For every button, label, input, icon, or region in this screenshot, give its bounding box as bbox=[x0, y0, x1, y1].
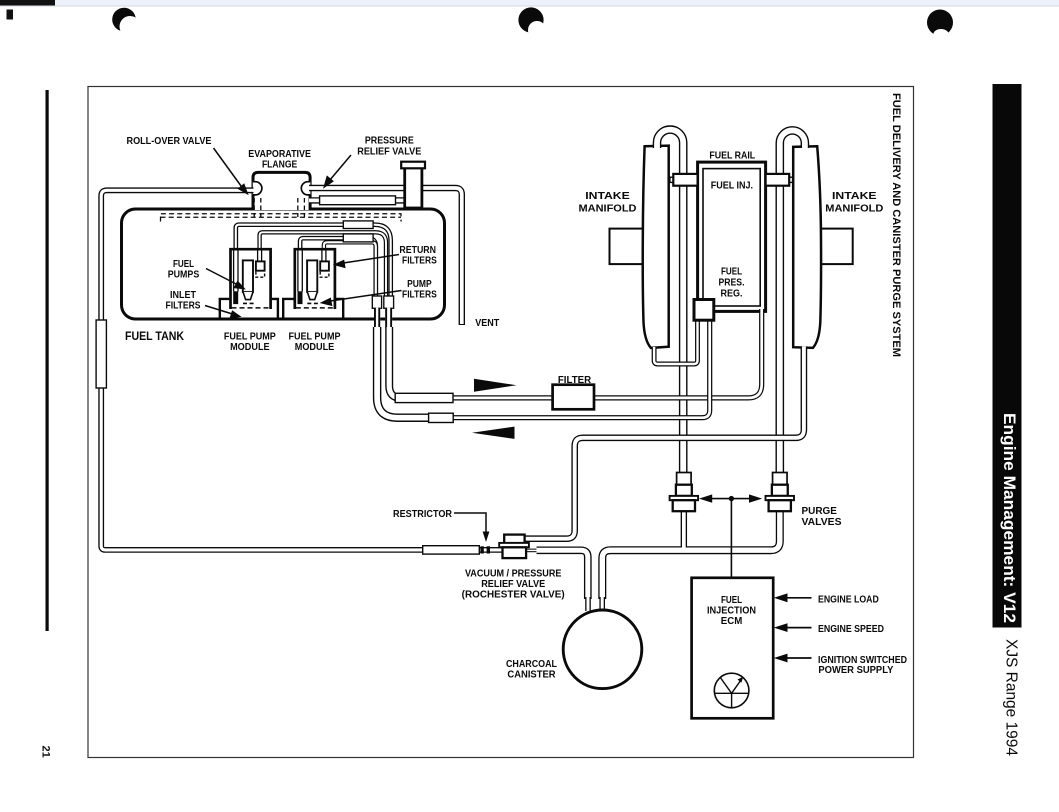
svg-text:Engine Management: V12: Engine Management: V12 bbox=[1000, 413, 1018, 623]
svg-text:RESTRICTOR: RESTRICTOR bbox=[393, 509, 452, 520]
svg-text:INTAKE: INTAKE bbox=[832, 191, 877, 202]
svg-text:INLET: INLET bbox=[170, 290, 196, 301]
tank wall fitting right bbox=[385, 308, 392, 329]
purge valve double arrow bbox=[699, 494, 762, 502]
ECM input arrow: engine speed bbox=[774, 623, 812, 632]
svg-text:REG.: REG. bbox=[721, 289, 743, 300]
sleeve on run A bbox=[343, 221, 373, 229]
fuel pressure regulator bbox=[694, 300, 714, 321]
run C (pump2 line) bbox=[300, 238, 376, 308]
vent line (tank top right, to VENT) bbox=[309, 188, 462, 325]
roll-over vent line (left, long run to restrictor) bbox=[101, 190, 505, 550]
leader arrow roll-over valve bbox=[214, 148, 243, 188]
svg-text:FILTERS: FILTERS bbox=[402, 289, 437, 300]
inlet strainer 2 (black) bbox=[298, 291, 303, 304]
punch hole crescent 1 bbox=[112, 8, 140, 37]
supply coupling sleeve bbox=[395, 393, 453, 402]
supply hose elbow (right fitting down) bbox=[389, 327, 432, 398]
svg-text:INJECTION: INJECTION bbox=[707, 606, 756, 617]
left purge valve lower stem (T into purge feed) bbox=[681, 510, 687, 553]
svg-text:FUEL RAIL: FUEL RAIL bbox=[709, 151, 755, 162]
svg-text:MODULE: MODULE bbox=[230, 342, 270, 353]
svg-text:RELIEF VALVE: RELIEF VALVE bbox=[357, 146, 422, 157]
fuel rail inner bbox=[703, 169, 760, 306]
svg-text:CANISTER: CANISTER bbox=[507, 670, 555, 681]
run B (return1 line) bbox=[260, 232, 386, 308]
fuel supply line (filter run + riser to rail) bbox=[430, 309, 762, 398]
right sidebar black tab bbox=[993, 84, 1022, 628]
svg-text:MANIFOLD: MANIFOLD bbox=[825, 203, 883, 214]
flow arrow right bbox=[474, 379, 517, 392]
svg-text:VACUUM / PRESSURE: VACUUM / PRESSURE bbox=[465, 569, 562, 580]
module 2 box bbox=[295, 249, 335, 309]
svg-text:FUEL INJ.: FUEL INJ. bbox=[711, 181, 754, 192]
return filter 1 bbox=[256, 261, 265, 270]
left injector connector bbox=[670, 177, 673, 182]
fuel return line (run + riser to regulator) bbox=[432, 318, 710, 418]
canister neck stems bbox=[588, 596, 602, 611]
flange right port bbox=[301, 182, 310, 195]
tank wall fitting left bbox=[374, 308, 380, 329]
dashed drop tubes under right port bbox=[298, 198, 305, 217]
leader arrow inlet filters bbox=[205, 306, 234, 315]
left manifold port box bbox=[610, 229, 646, 265]
svg-text:FUEL TANK: FUEL TANK bbox=[125, 329, 184, 343]
fuel tank bbox=[122, 209, 445, 319]
left purge U-bend down to purge valve bbox=[657, 130, 683, 486]
flow arrow left bbox=[472, 427, 515, 439]
leader arrow fuel pumps bbox=[206, 269, 239, 286]
evaporative flange bbox=[253, 172, 310, 210]
module 1 box bbox=[231, 249, 271, 309]
flange left port bbox=[253, 182, 262, 195]
return hose elbow (left fitting down) bbox=[377, 327, 432, 418]
rochester valve bbox=[499, 535, 529, 559]
fuel pump 2 bbox=[307, 260, 317, 292]
svg-text:VALVES: VALVES bbox=[802, 517, 843, 528]
svg-text:VENT: VENT bbox=[475, 318, 499, 329]
inlet strainer 1 (black) bbox=[233, 291, 238, 304]
right purge valve bbox=[766, 473, 795, 512]
svg-text:RELIEF VALVE: RELIEF VALVE bbox=[481, 579, 546, 590]
ECM box bbox=[692, 578, 774, 719]
svg-text:MODULE: MODULE bbox=[295, 342, 335, 353]
fuel pump 1 bbox=[243, 260, 253, 292]
svg-text:INTAKE: INTAKE bbox=[585, 191, 630, 202]
tank wall fitting right (upper sleeve) bbox=[384, 296, 394, 308]
scanner top band bbox=[0, 0, 1059, 6]
leader restrictor bbox=[454, 513, 486, 534]
module 2 riser lines redrawn inside box bbox=[300, 251, 324, 293]
link: rochester to canister left port bbox=[537, 550, 588, 599]
rochester right port stub bbox=[526, 549, 538, 553]
svg-text:FLANGE: FLANGE bbox=[262, 160, 298, 171]
module 1 bottom screen (dashed) bbox=[232, 307, 270, 309]
svg-text:FILTERS: FILTERS bbox=[402, 255, 437, 266]
return filter 2 bbox=[320, 261, 329, 270]
fuel rail outer bbox=[698, 162, 766, 311]
leader arrow return filters bbox=[340, 255, 399, 264]
ECM symbol circle bbox=[714, 673, 749, 708]
module 2 base bbox=[283, 299, 343, 318]
svg-text:CHARCOAL: CHARCOAL bbox=[506, 659, 557, 670]
svg-text:EVAPORATIVE: EVAPORATIVE bbox=[248, 149, 311, 160]
svg-text:XJS Range 1994: XJS Range 1994 bbox=[1003, 639, 1020, 756]
svg-text:PUMPS: PUMPS bbox=[168, 270, 200, 281]
left intake manifold bbox=[643, 146, 669, 348]
return coupling sleeve bbox=[429, 413, 454, 422]
svg-text:FILTER: FILTER bbox=[558, 375, 591, 386]
restrictor sleeve bbox=[423, 546, 480, 554]
corner black mark top-left bbox=[0, 0, 55, 6]
left purge valve bbox=[670, 473, 699, 512]
svg-text:FUEL: FUEL bbox=[721, 267, 742, 278]
vacuum line: left manifold bottom to regulator bbox=[654, 320, 697, 364]
run A (pump1 line) bbox=[236, 225, 391, 308]
svg-text:ROLL-OVER VALVE: ROLL-OVER VALVE bbox=[127, 136, 212, 147]
module 1 base bbox=[220, 299, 278, 318]
svg-text:FILTERS: FILTERS bbox=[166, 300, 201, 311]
dashed drop tubes under left port bbox=[254, 198, 261, 217]
vacuum signal line: rochester top to right manifold bottom bbox=[522, 347, 804, 539]
svg-text:ENGINE SPEED: ENGINE SPEED bbox=[818, 624, 884, 635]
svg-text:FUEL: FUEL bbox=[173, 259, 194, 270]
tank wall fitting left (upper sleeve) bbox=[372, 296, 381, 308]
svg-text:MANIFOLD: MANIFOLD bbox=[579, 203, 637, 214]
svg-text:PRESSURE: PRESSURE bbox=[365, 136, 414, 147]
svg-text:ENGINE LOAD: ENGINE LOAD bbox=[818, 594, 879, 605]
svg-text:POWER SUPPLY: POWER SUPPLY bbox=[818, 665, 894, 676]
right manifold port box bbox=[817, 229, 853, 265]
pressure relief valve body bbox=[405, 168, 422, 209]
leader arrow pump filters bbox=[327, 291, 402, 302]
purge feed: canister right port to right purge valve bbox=[602, 510, 780, 599]
leader arrow pressure relief valve bbox=[330, 155, 352, 181]
coupling sleeve on left vent line bbox=[96, 320, 106, 388]
svg-text:PRES.: PRES. bbox=[719, 278, 745, 289]
run D (return2 line) bbox=[324, 242, 376, 308]
svg-text:21: 21 bbox=[40, 746, 52, 758]
dashed level line in tank bbox=[161, 214, 402, 222]
left margin rule bbox=[46, 90, 49, 631]
module 2 bottom screen (dashed) bbox=[296, 307, 334, 309]
svg-text:PURGE: PURGE bbox=[802, 506, 838, 517]
right purge U-bend down to purge valve bbox=[780, 130, 805, 485]
diagram frame bbox=[88, 87, 914, 758]
fuel filter box bbox=[553, 385, 594, 410]
pressure relief valve cap bbox=[401, 162, 425, 169]
svg-text:(ROCHESTER VALVE): (ROCHESTER VALVE) bbox=[462, 590, 565, 601]
sleeve on relief feed line bbox=[320, 196, 396, 205]
right intake manifold bbox=[793, 146, 821, 348]
svg-text:FUEL: FUEL bbox=[721, 595, 742, 606]
ECM input arrow: ignition bbox=[774, 654, 812, 663]
sleeve on runs C/D bbox=[343, 234, 373, 242]
charcoal canister bbox=[563, 610, 642, 689]
punch hole crescent 2 bbox=[518, 7, 546, 39]
svg-text:ECM: ECM bbox=[721, 616, 743, 627]
svg-text:FUEL DELIVERY AND CANISTER PUR: FUEL DELIVERY AND CANISTER PURGE SYSTEM bbox=[890, 93, 902, 357]
ECM input arrow: engine load bbox=[774, 593, 812, 602]
restrictor marks bbox=[480, 546, 483, 553]
right injector connector bbox=[789, 177, 792, 182]
ECM signal wire from purge valve junction bbox=[730, 499, 732, 578]
pressure relief feed line bbox=[309, 197, 414, 203]
module 1 riser lines redrawn inside box bbox=[236, 251, 260, 293]
punch hole crescent 3 bbox=[927, 10, 953, 40]
